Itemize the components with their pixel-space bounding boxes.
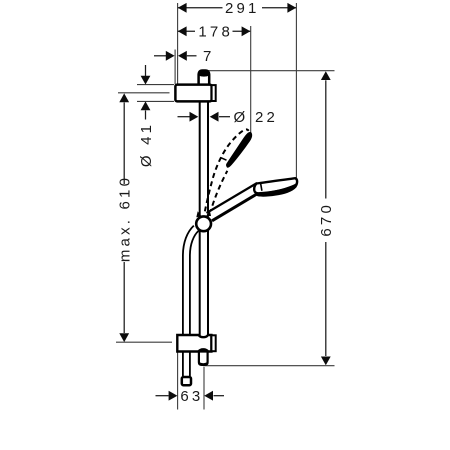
svg-text:Ø: Ø — [234, 109, 249, 126]
head seam tick — [261, 183, 262, 191]
wall bracket body — [175, 85, 211, 102]
slider end cap — [211, 335, 215, 351]
extension line 178 (to dashed head) — [250, 26, 252, 133]
svg-text:178: 178 — [198, 24, 233, 41]
extension line bar face (7 dim) — [174, 50, 176, 85]
hose conical connector — [182, 377, 191, 385]
hand shower handle (down position) — [207, 183, 258, 221]
dashed hand shower (up position) handle — [205, 129, 249, 213]
extension line 63 left — [177, 351, 179, 410]
reference line rod bottom (670) — [205, 365, 335, 367]
extension line bracket centre (max 610) — [118, 92, 170, 94]
extension line 291 (to head right) — [295, 3, 297, 178]
svg-text:670: 670 — [318, 202, 335, 237]
extension line 63 right — [203, 367, 205, 410]
extension line bracket top (Ø41) — [137, 84, 174, 86]
dashed head spray face (dark crescent) — [226, 132, 252, 168]
svg-text:291: 291 — [225, 0, 260, 17]
svg-text:Ø 41: Ø 41 — [138, 122, 155, 167]
extension line bracket bottom (Ø41) — [137, 100, 174, 102]
dashed head seam tick — [221, 158, 227, 161]
dimension Ø41 — [138, 65, 155, 167]
wall bracket end cap — [212, 85, 216, 101]
dimension Ø22 — [178, 109, 279, 126]
svg-text:63: 63 — [180, 388, 203, 405]
dimension 178 — [178, 24, 251, 41]
holder clamp wedges — [196, 211, 201, 217]
holder knob (slider pivot) — [196, 216, 211, 231]
reference line rod top (670) — [205, 70, 335, 72]
dimension 670 — [318, 71, 335, 365]
slider bracket body — [177, 335, 211, 352]
svg-text:max. 610: max. 610 — [117, 175, 134, 262]
dimension 7 — [154, 48, 215, 65]
svg-text:22: 22 — [255, 109, 278, 126]
shower hose — [186, 228, 196, 376]
extension line slider centre (max 610) — [116, 341, 172, 343]
dimension max. 610 — [117, 93, 134, 342]
rod bottom end cap — [199, 352, 208, 365]
svg-text:7: 7 — [203, 48, 215, 65]
hand shower head — [254, 178, 297, 197]
dimension 63 — [156, 388, 225, 405]
wall bar rod — [198, 70, 209, 352]
extension line wall face (top) — [116, 3, 335, 410]
dimension 291 — [178, 0, 296, 17]
